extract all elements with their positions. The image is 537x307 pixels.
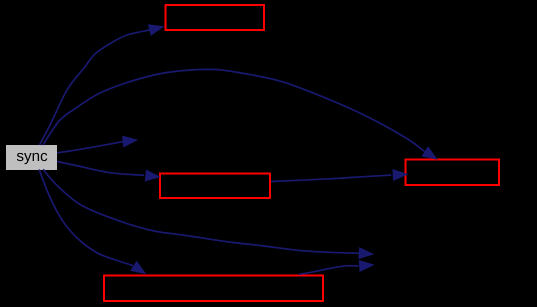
- node box top (truncated, red): [166, 5, 265, 30]
- node sync (current function, grey box): [6, 145, 57, 170]
- wire E5_middle_to_right: [271, 169, 408, 182]
- wire E2_sync_to_right: [43, 69, 438, 159]
- label sync: [17, 153, 47, 164]
- wire E7_sync_to_hidden2: [43, 169, 374, 259]
- wire E8_bottom_to_hidden2: [299, 260, 375, 274]
- wire E6_sync_to_bottom: [39, 170, 146, 275]
- wire E4_sync_to_middle: [57, 162, 161, 182]
- node box middle (truncated, red): [160, 174, 270, 199]
- node box bottom (truncated, red): [104, 276, 323, 302]
- wire E3_sync_to_hidden1: [57, 136, 138, 153]
- wire E1_sync_to_top: [40, 24, 165, 145]
- node box right (truncated, red): [406, 160, 500, 186]
